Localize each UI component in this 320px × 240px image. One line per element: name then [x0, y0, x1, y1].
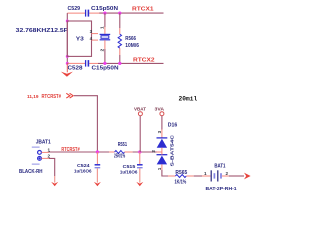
ground symbol (crystal rail) [61, 63, 73, 76]
resistor R565 [168, 175, 194, 178]
crystal Y3 body box [67, 21, 91, 56]
wire RTCX1 (top net) [67, 12, 163, 14]
svg-text:2: 2 [226, 171, 229, 176]
svg-text:32.768KHZ12.5P: 32.768KHZ12.5P [16, 28, 69, 34]
wire crystal bottom (Y3 pin2 to RTCX2) [104, 49, 106, 63]
svg-text:D16: D16 [168, 122, 178, 128]
svg-text:4: 4 [90, 36, 93, 41]
node dot R566/RTCX2 [118, 62, 121, 65]
capacitor C529 [86, 10, 89, 17]
pin 2 stub JBAT1 [42, 157, 50, 159]
node dot rail/bottom wire [66, 62, 69, 65]
connector JBAT1 body lines [32, 147, 40, 164]
svg-text:RTCRST#: RTCRST# [42, 94, 62, 100]
svg-text:1u/16O6: 1u/16O6 [74, 169, 92, 175]
node dot rail/box bottom [66, 55, 69, 58]
wire R565 to BAT1 [194, 175, 202, 177]
connector pin 2 circle [38, 157, 42, 161]
wire diode to battery row [162, 170, 168, 176]
svg-text:2: 2 [151, 150, 156, 153]
svg-text:25R/1%: 25R/1% [114, 154, 126, 160]
capacitor C524 [95, 152, 101, 168]
node junction dot (R566 top / RTCX1) [118, 12, 121, 15]
battery BAT1 [202, 170, 229, 181]
wire R566 top [119, 13, 121, 28]
svg-text:JBAT1: JBAT1 [36, 140, 51, 146]
svg-text:1: 1 [204, 171, 207, 176]
resistor R551 [109, 151, 133, 154]
capacitor C528 [86, 60, 89, 67]
diode D16 (dual BAT54C) [157, 130, 168, 171]
capacitor C515 [137, 152, 143, 168]
ground arrow (C515) [136, 168, 143, 186]
svg-text:RTCRST#: RTCRST# [61, 147, 79, 153]
pin 1 stub JBAT1 [42, 151, 50, 153]
svg-text:C15p50N: C15p50N [91, 6, 118, 12]
svg-text:3VA: 3VA [155, 106, 165, 112]
power symbol VBAT [134, 106, 146, 152]
svg-text:20mil: 20mil [179, 96, 198, 103]
wire R566 bottom [119, 55, 121, 63]
svg-text:R566: R566 [125, 36, 136, 42]
svg-text:C515: C515 [123, 164, 136, 170]
crystal element plates [100, 34, 111, 39]
pin 3 stub of Y3 [92, 33, 99, 35]
pin stub diode anode (pin 2) [157, 151, 162, 153]
svg-text:1: 1 [157, 167, 162, 170]
svg-text:11,19: 11,19 [27, 94, 39, 100]
svg-text:S-BAT54C: S-BAT54C [170, 134, 176, 166]
ground arrow (JBAT1 pin2) [51, 176, 58, 186]
node dot rail/box top [66, 20, 69, 23]
pin 4 stub of Y3 [92, 39, 99, 41]
svg-text:RTCX1: RTCX1 [132, 6, 154, 12]
svg-text:C528: C528 [68, 66, 83, 72]
wire RTCRST# (chevron to battery net) [74, 96, 97, 152]
wire battery net (JBAT1 pin1 to diode) [49, 151, 109, 153]
svg-text:BAT1: BAT1 [214, 163, 225, 169]
node dot crystal/RTCX2 [103, 62, 106, 65]
wire BAT1 to net arrow [229, 175, 244, 177]
svg-text:3: 3 [90, 29, 93, 34]
svg-text:1u/16O6: 1u/16O6 [120, 169, 138, 175]
wire JBAT1 pin2 to ground [49, 158, 55, 176]
svg-text:C529: C529 [68, 6, 81, 12]
svg-text:BAT-2P-RH-1: BAT-2P-RH-1 [206, 186, 237, 192]
svg-text:BLACK-RH: BLACK-RH [19, 169, 43, 175]
wire R551 to VBAT node [133, 151, 157, 153]
resistor R566 [118, 28, 121, 55]
wire RTCX2 (bottom net) [67, 62, 163, 64]
svg-text:C15p50N: C15p50N [92, 66, 119, 72]
node junction dot (crystal pin1 / RTCX1) [103, 12, 106, 15]
connector pin 1 circle [38, 151, 42, 155]
pin stub cathode top (pin 3) [161, 130, 163, 138]
pin 1 stub of crystal [104, 27, 106, 34]
pin 2 stub of crystal [104, 40, 106, 49]
svg-text:3: 3 [157, 130, 162, 133]
svg-text:Y3: Y3 [76, 36, 84, 42]
svg-text:R551: R551 [118, 142, 127, 148]
svg-text:C524: C524 [77, 163, 90, 169]
svg-text:1K/1%: 1K/1% [175, 179, 187, 185]
svg-text:RTCX2: RTCX2 [133, 58, 155, 64]
svg-text:R565: R565 [175, 170, 187, 176]
port chevron [66, 93, 73, 98]
svg-text:1: 1 [100, 26, 105, 29]
power symbol 3VA [155, 106, 165, 129]
wire crystal top (RTCX1 to Y3 pin1) [104, 13, 106, 27]
wire ground rail (left vertical) [66, 13, 68, 63]
svg-text:10M/6: 10M/6 [125, 43, 139, 49]
svg-text:2: 2 [100, 48, 105, 51]
node dot VBAT/C515 [138, 150, 141, 153]
node dot RTCRST#/C524 [96, 150, 99, 153]
ground arrow (C524) [94, 168, 101, 186]
net arrow (right) [244, 173, 251, 180]
